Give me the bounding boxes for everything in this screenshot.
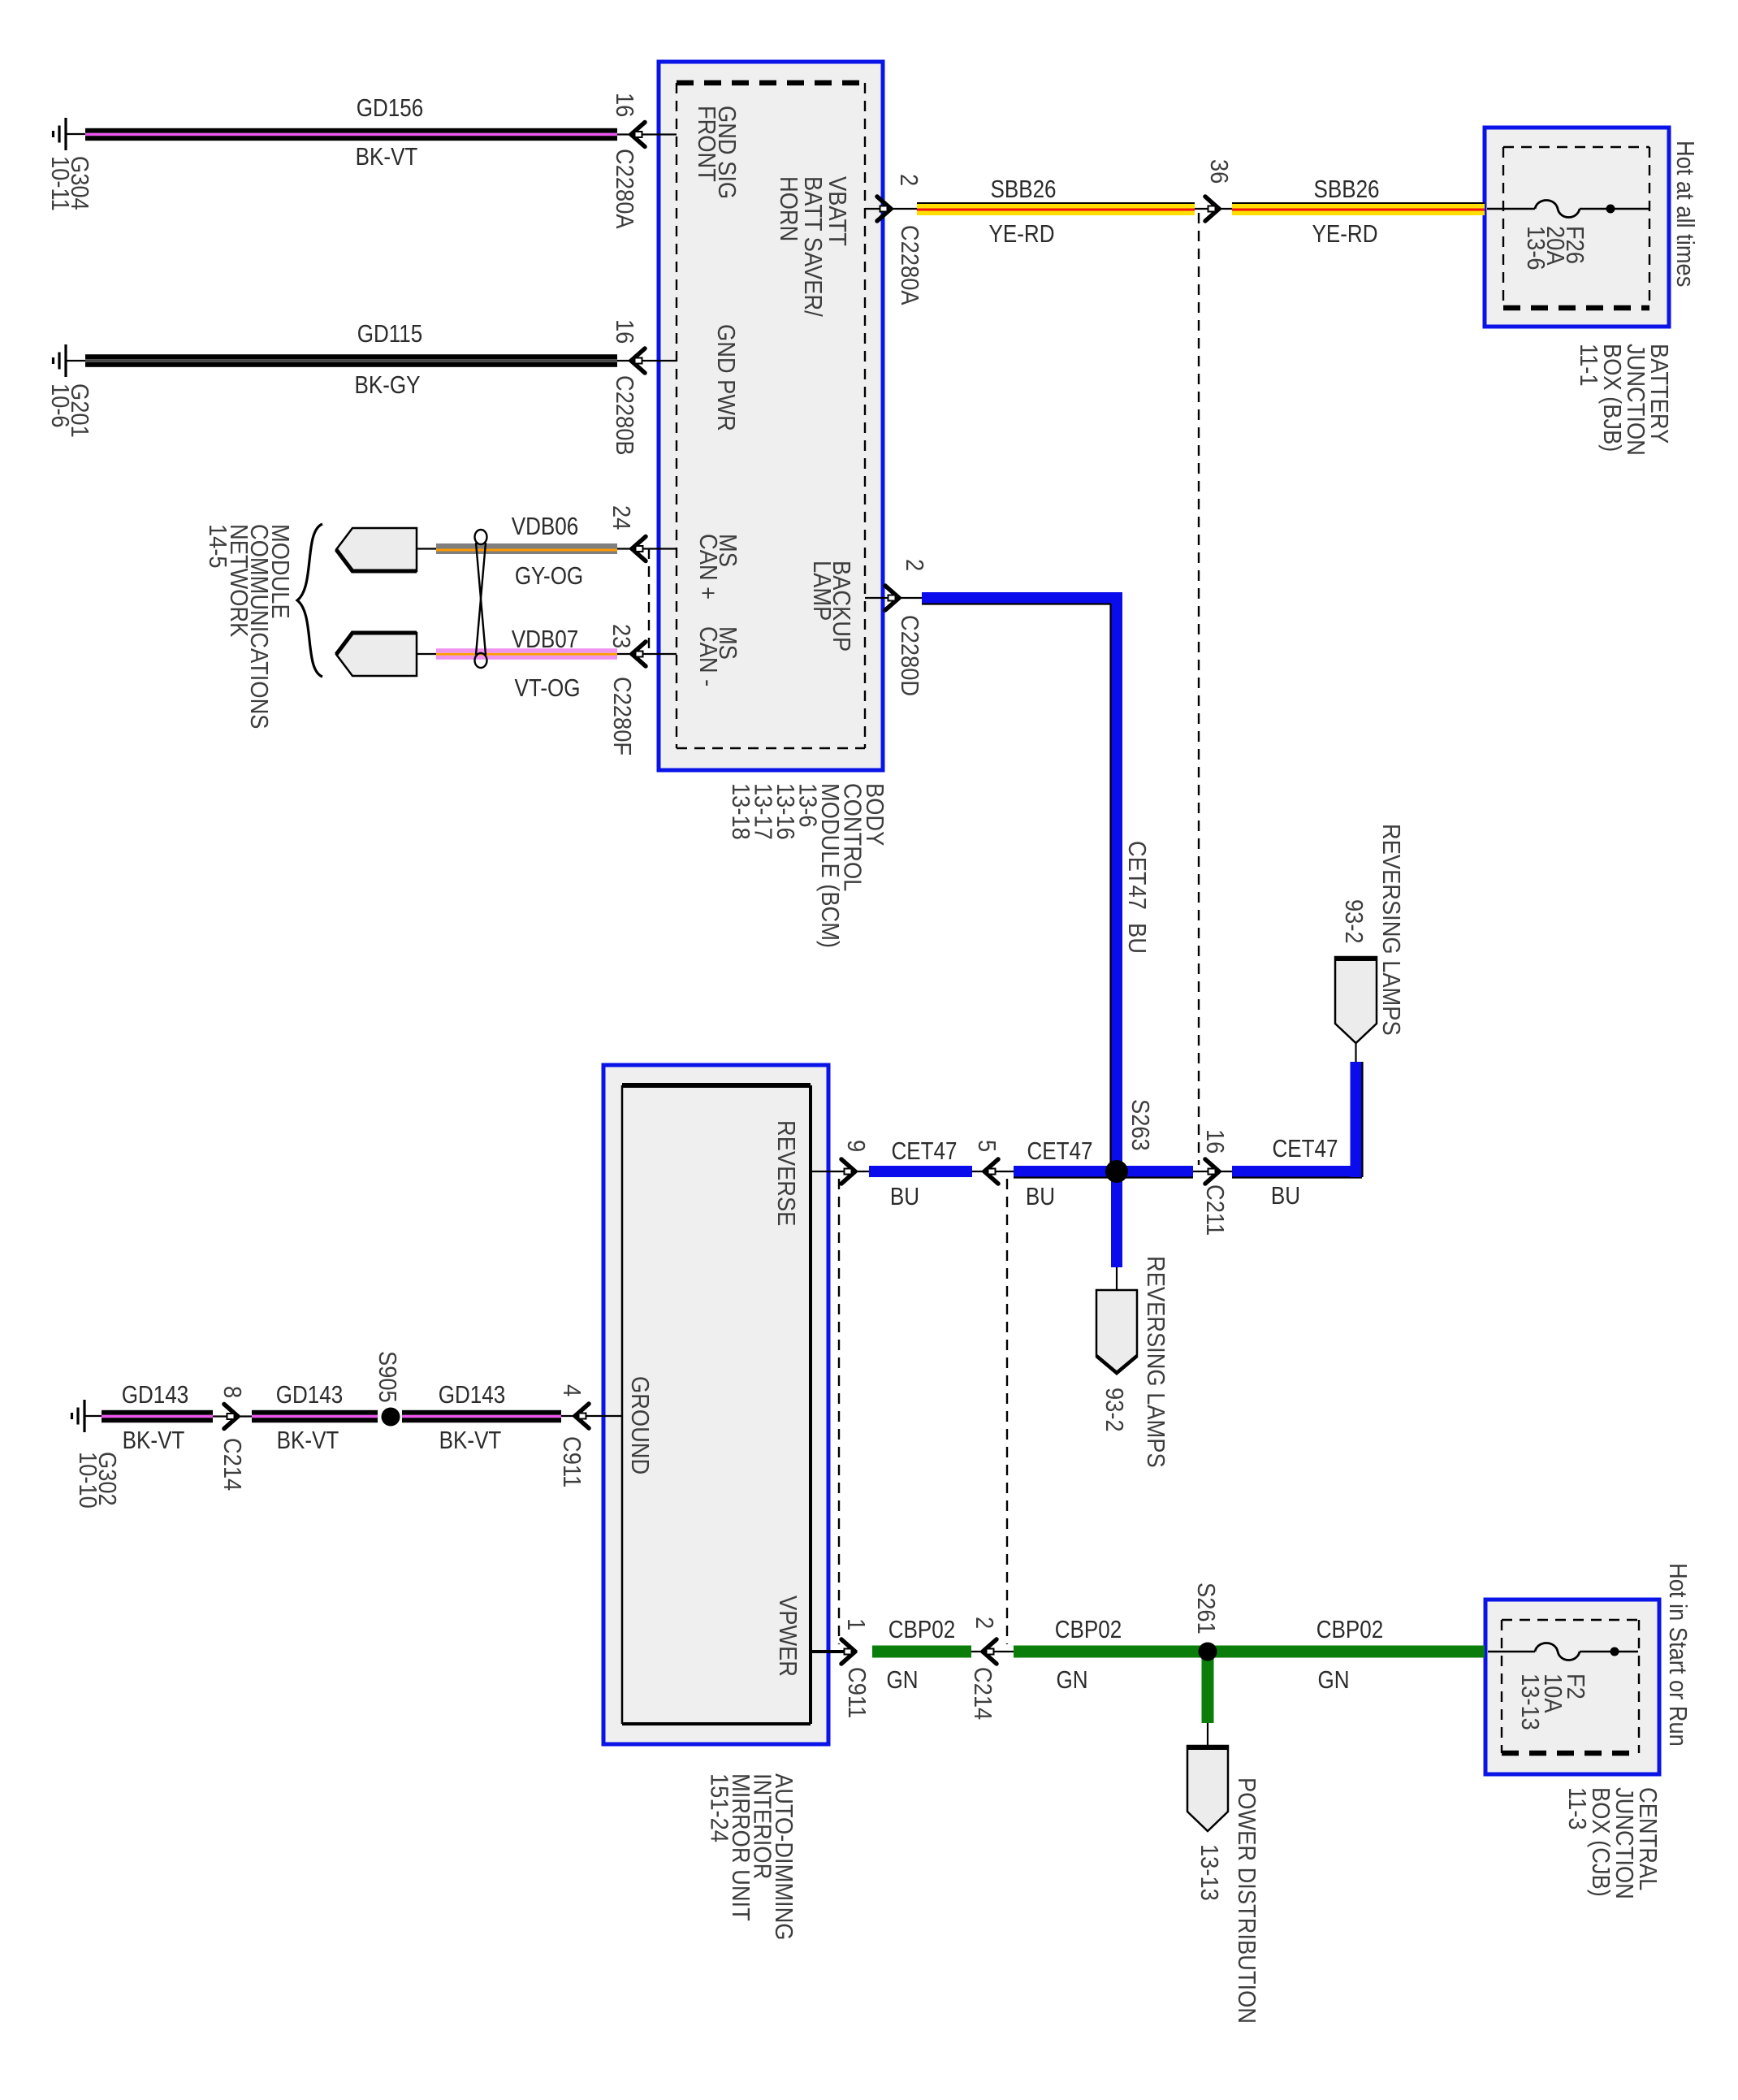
svg-text:BU: BU [1026, 1183, 1055, 1211]
wire CBP02 GN segment pin1 to pin2 [872, 1646, 971, 1658]
label pin 2 (BACKUP LAMP) [901, 559, 928, 571]
label C2280A (right) [896, 225, 923, 305]
CJB fuse terminal dot [1610, 1648, 1619, 1656]
svg-text:13-13: 13-13 [1195, 1844, 1223, 1901]
svg-text:13-6: 13-6 [1522, 226, 1550, 271]
label BK-GY [355, 371, 421, 400]
label GD143 (segment 1) [122, 1381, 188, 1409]
label REVERSING LAMPS (upper) [1377, 824, 1405, 1036]
mirror unit inner rectangle left [621, 1085, 624, 1724]
connector arrow pin 16 C2280B [631, 349, 645, 373]
label F26 20A 13-6 [1522, 226, 1589, 271]
off-page connector pentagon REVERSING LAMPS (upper) [1335, 957, 1377, 1043]
svg-text:GN: GN [1056, 1666, 1087, 1695]
wire CET47 BU vertical up to reversing lamps [1351, 1062, 1363, 1177]
off-page connector pentagon REVERSING LAMPS (lower) [1096, 1290, 1137, 1373]
BCM inner dashed boundary bottom [677, 747, 865, 749]
wire lead to power distribution pentagon [1207, 1723, 1208, 1746]
mirror pin name GROUND [626, 1376, 654, 1474]
svg-text:GD156: GD156 [357, 94, 423, 123]
svg-text:151-24: 151-24 [705, 1773, 733, 1842]
svg-text:CAN -: CAN - [694, 626, 722, 686]
connector arrow pin 8 C214 [224, 1405, 238, 1429]
mirror unit inner rectangle bottom [622, 1722, 811, 1725]
svg-text:23: 23 [607, 624, 635, 648]
svg-text:10-11: 10-11 [46, 156, 74, 211]
svg-text:9: 9 [842, 1140, 870, 1152]
svg-text:LAMP: LAMP [808, 561, 836, 621]
connector arrow pin 16 C211 [1205, 1159, 1219, 1184]
svg-text:13-13: 13-13 [1516, 1674, 1544, 1730]
label S261 [1192, 1583, 1220, 1635]
svg-text:YE-RD: YE-RD [989, 220, 1055, 249]
label BK-VT (segment 2) [277, 1427, 339, 1455]
BJB fuse lead left [1487, 208, 1535, 210]
svg-text:GD115: GD115 [357, 320, 423, 349]
BCM pin name GND SIG FRONT [693, 106, 741, 199]
label GD143 (segment 2) [276, 1381, 343, 1409]
BJB fuse terminal dot [1606, 205, 1615, 214]
dashed connector link C214 from pin 5 to pin 2 [1006, 1179, 1008, 1644]
wire lead to reversing lamps pentagon (up) [1355, 1043, 1356, 1062]
fuse F2 element [1535, 1643, 1580, 1661]
svg-text:GD143: GD143 [122, 1381, 188, 1409]
svg-text:CET47: CET47 [1123, 841, 1151, 910]
BJB dashed boundary bottom (thick) [1503, 305, 1649, 311]
svg-text:GN: GN [1317, 1666, 1349, 1695]
label CBP02 (segment 3) [1316, 1616, 1383, 1644]
svg-text:C214: C214 [218, 1438, 246, 1491]
wire VDB07 VT-OG twisted pair to BCM pin 23 [436, 648, 617, 660]
wire CET47 BU segment C211 to reversing lamps [1232, 1166, 1362, 1178]
wire lead pentagon to VDB06 [417, 548, 436, 549]
BCM inner dashed boundary top (thick) [677, 80, 865, 86]
svg-text:24: 24 [607, 505, 635, 530]
splice S261 [1199, 1643, 1217, 1661]
off-page connector pentagon POWER DISTRIBUTION [1187, 1746, 1228, 1831]
svg-text:POWER DISTRIBUTION: POWER DISTRIBUTION [1233, 1777, 1260, 2024]
svg-text:Hot at all times: Hot at all times [1671, 141, 1699, 287]
connector arrow pin 9 C911 [841, 1159, 855, 1184]
label C214 (ground chain) [218, 1438, 246, 1491]
BCM box outline (Body Control Module) [659, 62, 883, 770]
label CET47 (vertical run) [1123, 841, 1151, 910]
label GD156 [357, 94, 423, 123]
svg-text:2: 2 [895, 174, 923, 186]
off-page connector pentagon (MS CAN -, module communications network) [336, 633, 417, 676]
BJB dashed boundary right [1649, 147, 1650, 308]
svg-text:S905: S905 [374, 1351, 401, 1403]
svg-text:SBB26: SBB26 [990, 175, 1056, 204]
svg-text:10-6: 10-6 [46, 383, 74, 428]
label pin 2 (VBATT) [895, 174, 923, 186]
svg-text:VT-OG: VT-OG [515, 674, 581, 703]
label CET47 (segment 3) [1273, 1135, 1338, 1163]
svg-text:Hot in Start or Run: Hot in Start or Run [1664, 1563, 1692, 1747]
label BU (segment 1) [890, 1183, 919, 1211]
BCM pin name MS CAN + [694, 534, 741, 600]
wire lead into BCM pin 24 [617, 548, 677, 549]
svg-text:CET47: CET47 [1273, 1135, 1338, 1163]
svg-text:36: 36 [1205, 159, 1233, 184]
label CET47 (segment 1) [892, 1137, 958, 1166]
brace for module communications network [297, 524, 322, 677]
connector arrow pin 2 C2280D [885, 586, 899, 610]
svg-text:C911: C911 [843, 1667, 871, 1718]
twisted-pair twist symbol [475, 530, 487, 668]
label F2 10A 13-13 [1516, 1674, 1589, 1730]
wire GD143 BK-VT segment from G302 [102, 1410, 213, 1422]
svg-text:BU: BU [1271, 1182, 1300, 1210]
connector arrow pin 24 [632, 537, 646, 561]
svg-text:GN: GN [886, 1666, 918, 1695]
wire CET47 BU segment pin5 to C211 [1014, 1166, 1193, 1178]
label G201 10-6 [46, 383, 93, 438]
svg-text:VDB06: VDB06 [512, 513, 578, 541]
label VT-OG [515, 674, 581, 703]
svg-text:C214: C214 [969, 1667, 997, 1720]
wire lead BCM pin 2 VBATT [865, 208, 917, 210]
label pin 16 (C2280A) [611, 93, 638, 117]
svg-text:GD143: GD143 [439, 1381, 505, 1409]
svg-text:C2280A: C2280A [611, 149, 638, 229]
label C211 [1201, 1184, 1229, 1236]
label GN (segment 2) [1056, 1666, 1087, 1695]
svg-text:11-3: 11-3 [1563, 1787, 1591, 1830]
label BU (segment 2) [1026, 1183, 1055, 1211]
label MODULE COMMUNICATIONS NETWORK 14-5 [204, 524, 294, 729]
label pin 9 [842, 1140, 870, 1152]
label pin 4 [558, 1384, 586, 1396]
svg-text:BU: BU [1123, 923, 1151, 954]
label BATTERY JUNCTION BOX (BJB) 11-1 [1575, 344, 1673, 456]
label 13-13 (power distribution) [1195, 1844, 1223, 1901]
BCM inner dashed boundary left [676, 83, 677, 748]
label GD115 [357, 320, 423, 349]
svg-text:CET47: CET47 [1027, 1137, 1093, 1166]
svg-text:CBP02: CBP02 [888, 1616, 955, 1644]
connector arrow pin 2 C2280A (right) [877, 197, 891, 221]
label pin 2 (C214) [971, 1617, 998, 1629]
wire lead mirror VPWER pin 1 [811, 1650, 855, 1653]
svg-text:C211: C211 [1201, 1184, 1229, 1236]
svg-text:GY-OG: GY-OG [515, 562, 583, 591]
splice S263 [1105, 1160, 1128, 1183]
label pin 23 [607, 624, 635, 648]
mirror pin name REVERSE [772, 1120, 800, 1226]
svg-text:BU: BU [890, 1183, 919, 1211]
wire lead mirror REVERSE pin 9 [811, 1171, 869, 1172]
svg-text:C911: C911 [558, 1436, 586, 1487]
ground G302 [72, 1400, 102, 1432]
svg-text:10-10: 10-10 [74, 1452, 102, 1509]
svg-text:BATT SAVER/: BATT SAVER/ [799, 176, 827, 318]
svg-text:8: 8 [218, 1386, 246, 1398]
svg-text:93-2: 93-2 [1340, 899, 1368, 944]
label 93-2 (lower) [1100, 1388, 1128, 1432]
splice S905 [382, 1408, 400, 1427]
svg-text:CBP02: CBP02 [1316, 1616, 1383, 1644]
label GD143 (segment 3) [439, 1381, 505, 1409]
ground G304 [54, 118, 86, 150]
dashed connector link C911 from pin 9 to pin 1 [838, 1179, 840, 1644]
connector arrow pin 4 C911 [575, 1404, 589, 1428]
svg-text:5: 5 [973, 1140, 1001, 1152]
connector arrow pin 23 [632, 642, 646, 666]
wire CBP02 GN segment pin2 to S261 [1014, 1646, 1202, 1658]
wire SBB26 YE-RD right segment [1232, 202, 1485, 215]
CJB fuse lead right with terminal [1580, 1651, 1638, 1653]
mirror unit inner rectangle top (thick) [622, 1083, 811, 1088]
label pin 5 [973, 1140, 1001, 1152]
connector arrow pin 2 C214 [983, 1639, 997, 1664]
label pin 16 (C2280B) [611, 319, 638, 344]
label pin 16 (C211) [1201, 1129, 1229, 1154]
label Hot in Start or Run [1664, 1563, 1692, 1747]
label pin 24 [607, 505, 635, 530]
label BK-VT (segment 1) [123, 1427, 185, 1455]
svg-text:BK-VT: BK-VT [123, 1427, 185, 1455]
label C2280D [896, 615, 923, 696]
svg-text:BK-VT: BK-VT [277, 1427, 339, 1455]
wire SBB26 YE-RD left segment [917, 202, 1195, 215]
svg-text:SBB26: SBB26 [1313, 175, 1379, 204]
svg-text:BK-VT: BK-VT [439, 1427, 502, 1455]
wire lead through C214 pin 2 [971, 1651, 1014, 1652]
mirror unit box outline (Auto-Dimming Interior Mirror Unit) [603, 1065, 828, 1744]
label G302 10-10 [74, 1452, 121, 1509]
CJB fuse lead left [1488, 1651, 1535, 1653]
dashed connector link C211 from pin 36 to pin 16 [1198, 213, 1200, 1165]
label GN (segment 3) [1317, 1666, 1349, 1695]
svg-text:4: 4 [558, 1384, 586, 1396]
svg-text:13-18: 13-18 [727, 783, 754, 840]
BCM pin name GND PWR [712, 324, 740, 431]
label G304 10-11 [46, 156, 93, 211]
svg-text:C2280B: C2280B [611, 375, 638, 456]
BJB box outline (Battery Junction Box) [1485, 128, 1669, 327]
label C2280F [608, 677, 636, 756]
off-page connector pentagon (MS CAN +, module communications network) [336, 528, 417, 571]
svg-text:REVERSE: REVERSE [772, 1120, 800, 1226]
CJB dashed boundary left [1501, 1620, 1502, 1753]
svg-text:VBATT: VBATT [824, 176, 851, 246]
svg-text:S261: S261 [1192, 1583, 1220, 1635]
label CBP02 (segment 2) [1055, 1616, 1122, 1644]
wire lead pentagon to VDB07 [417, 653, 436, 655]
wire lead to reversing lamps pentagon (down) [1116, 1267, 1118, 1290]
label Hot at all times [1671, 141, 1699, 287]
label S263 [1126, 1099, 1154, 1151]
BJB dashed boundary left [1502, 147, 1504, 308]
label SBB26 (right) [1313, 175, 1379, 204]
svg-text:11-1: 11-1 [1575, 344, 1602, 387]
svg-text:VDB07: VDB07 [512, 626, 578, 654]
wire lead through C214 pin 5 [972, 1171, 1014, 1172]
label YE-RD (left) [989, 220, 1055, 249]
CJB dashed boundary right [1638, 1620, 1640, 1753]
svg-text:16: 16 [1201, 1129, 1229, 1154]
BCM pin name VBATT BATT SAVER/ HORN [775, 176, 851, 318]
label BU (segment 3) [1271, 1182, 1300, 1210]
label CET47 (segment 2) [1027, 1137, 1093, 1166]
label AUTO-DIMMING INTERIOR MIRROR UNIT 151-24 [705, 1773, 797, 1941]
BCM inner dashed boundary right [864, 83, 866, 748]
svg-text:VPWER: VPWER [774, 1596, 802, 1677]
wire lead into mirror GROUND pin 4 [561, 1415, 622, 1417]
wire GD143 BK-VT middle segment [252, 1410, 378, 1422]
wire CBP02 GN stub below S261 [1202, 1652, 1214, 1723]
svg-text:CAN +: CAN + [694, 534, 722, 600]
label 93-2 (upper) [1340, 899, 1368, 944]
label C2280A (left) [611, 149, 638, 229]
wire CET47 BU horizontal from BCM [922, 592, 1122, 604]
label BK-VT (GD156) [356, 143, 418, 171]
label S905 [374, 1351, 401, 1403]
wire lead through C211 pin 16 [1193, 1171, 1232, 1172]
svg-text:FRONT: FRONT [693, 106, 720, 182]
svg-text:REVERSING LAMPS: REVERSING LAMPS [1377, 824, 1405, 1036]
svg-text:CET47: CET47 [892, 1137, 958, 1166]
wire lead into BCM pin 16 C2280A [617, 133, 677, 135]
wire VDB06 GY-OG twisted pair to BCM pin 24 [436, 543, 617, 554]
svg-text:1: 1 [842, 1618, 870, 1630]
label C214 (power) [969, 1667, 997, 1720]
wire CBP02 GN segment S261 to CJB [1213, 1646, 1485, 1658]
label CBP02 (segment 1) [888, 1616, 955, 1644]
BJB dashed boundary top [1503, 146, 1649, 148]
label C2280B [611, 375, 638, 456]
svg-text:16: 16 [611, 93, 638, 117]
label pin 8 [218, 1386, 246, 1398]
label YE-RD (right) [1312, 220, 1378, 249]
wire CET47 BU stub below S263 [1111, 1171, 1122, 1267]
label SBB26 (left) [990, 175, 1056, 204]
label pin 1 [842, 1618, 870, 1630]
svg-text:C2280D: C2280D [896, 615, 923, 696]
label VDB07 [512, 626, 578, 654]
label BK-VT (segment 3) [439, 1427, 502, 1455]
wire CET47 BU segment pin9 to pin5 [869, 1166, 972, 1177]
fuse F26 element [1535, 201, 1580, 218]
label C911 (ground) [558, 1436, 586, 1487]
label pin 36 [1205, 159, 1233, 184]
wire GD143 BK-VT segment to mirror [402, 1410, 561, 1422]
svg-text:S263: S263 [1126, 1099, 1154, 1151]
label BODY CONTROL MODULE (BCM) 13-6 13-16 13-17 13-18 [727, 783, 888, 948]
mirror unit inner rectangle right [809, 1085, 812, 1724]
CJB box outline (Central Junction Box) [1485, 1600, 1659, 1774]
label GY-OG [515, 562, 583, 591]
wire lead into BCM pin 16 C2280B [617, 360, 677, 362]
svg-text:C2280A: C2280A [896, 225, 923, 305]
CJB dashed boundary bottom (thick) [1502, 1751, 1639, 1756]
svg-text:2: 2 [901, 559, 928, 571]
label C911 (power) [843, 1667, 871, 1718]
svg-text:93-2: 93-2 [1100, 1388, 1128, 1432]
wire CET47 BU vertical down to S263 [1111, 598, 1123, 1171]
BCM pin name BACKUP LAMP [808, 561, 855, 652]
svg-text:GROUND: GROUND [626, 1376, 654, 1474]
svg-text:CBP02: CBP02 [1055, 1616, 1122, 1644]
label GN (segment 1) [886, 1666, 918, 1695]
label VDB06 [512, 513, 578, 541]
wire GD115 BK-GY from G201 to BCM pin 16 [85, 354, 617, 367]
wire lead BCM pin 2 BACKUP LAMP [865, 597, 922, 599]
svg-text:GND PWR: GND PWR [712, 324, 740, 431]
connector arrow pin 16 C2280A [631, 123, 645, 147]
svg-text:YE-RD: YE-RD [1312, 220, 1378, 249]
connector arrow pin 1 C911 [841, 1639, 855, 1664]
wire GD156 BK-VT from G304 to BCM pin 16 [85, 128, 617, 141]
mirror pin name VPWER [774, 1596, 802, 1677]
svg-text:BK-GY: BK-GY [355, 371, 421, 400]
svg-text:16: 16 [611, 319, 638, 344]
svg-text:14-5: 14-5 [204, 524, 231, 569]
label POWER DISTRIBUTION [1233, 1777, 1260, 2024]
wire lead through C214 pin 8 [213, 1415, 252, 1417]
svg-text:HORN: HORN [775, 176, 802, 241]
svg-text:REVERSING LAMPS: REVERSING LAMPS [1142, 1256, 1169, 1468]
svg-text:2: 2 [971, 1617, 998, 1629]
label CENTRAL JUNCTION BOX (CJB) 11-3 [1563, 1787, 1662, 1899]
connector arrow pin 36 C211 [1205, 197, 1219, 221]
connector arrow pin 5 C214 [984, 1159, 998, 1184]
wire lead into BCM pin 23 [617, 653, 677, 655]
wire lead through C211 pin 36 [1195, 208, 1232, 210]
BCM pin name MS CAN - [694, 626, 741, 686]
dashed connector link C2280F between pins 24 and 23 [648, 548, 650, 655]
label REVERSING LAMPS (lower) [1142, 1256, 1169, 1468]
ground G201 [54, 344, 86, 377]
CJB dashed boundary top [1502, 1619, 1639, 1621]
svg-text:C2280F: C2280F [608, 677, 636, 756]
BJB fuse lead right with terminal [1580, 208, 1649, 210]
label BU (vertical run) [1123, 923, 1151, 954]
svg-text:GD143: GD143 [276, 1381, 343, 1409]
svg-text:BK-VT: BK-VT [356, 143, 418, 171]
